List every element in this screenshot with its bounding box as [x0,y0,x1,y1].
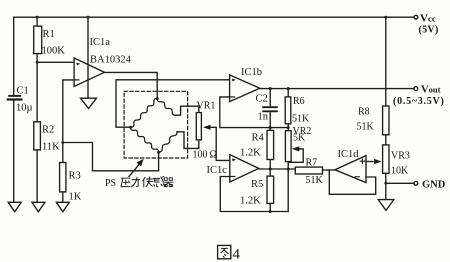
node R6 bottom junction [287,126,290,129]
resistor R8 [383,106,389,135]
terminal GND [414,181,418,185]
op-amp IC1d mirrored [335,156,366,183]
svg-text:11K: 11K [42,142,60,153]
bridge arm top-right [157,99,176,116]
terminal Vout [414,87,418,91]
wire bridge left vertex to IC1b plus input [116,80,230,127]
terminal Vcc [414,15,418,19]
svg-text:GND: GND [422,180,446,191]
wire VR3 bottom to ground [385,173,387,199]
ground under R2 [32,202,45,212]
wire IC1b minus feedback to node [220,97,288,128]
resistor R2 [34,122,41,150]
resistor R7 horizontal [295,167,322,174]
svg-text:C2: C2 [256,94,268,105]
svg-text:51K: 51K [292,114,310,125]
wire IC1b output to Vout [260,88,414,90]
svg-text:4: 4 [233,247,241,262]
wire R1 bottom lead to input node [36,54,38,63]
node R6 top [287,87,290,90]
wire IC1a power from rail [87,17,89,98]
node rail-R8 junction [384,16,387,19]
node rail-IC1a power junction [87,16,90,19]
wire bridge lower right arm to VR1 bottom [177,132,199,149]
wire IC1c minus feedback loop [220,177,288,212]
minus mark IC1b [231,96,235,98]
node R1-R2 junction [36,61,39,64]
svg-text:5K: 5K [293,133,306,144]
wire IC1a output [104,72,157,98]
wire IC1a plus input [37,61,74,63]
potentiometer VR2 [285,131,291,162]
resistor R6 [285,97,291,124]
capacitor C2 [263,107,277,111]
plus mark IC1d [360,159,364,163]
svg-text:1.2K: 1.2K [240,148,261,159]
ground under IC1a [81,98,97,108]
svg-text:C1: C1 [17,86,29,97]
wire R8 to VR3 [385,135,387,145]
plus mark IC1a [76,63,80,66]
node R3 top branch [61,141,64,144]
wire C1 bottom to ground [13,101,15,203]
wiper arrow VR2 [288,146,303,162]
svg-text:R6: R6 [293,96,305,107]
wire IC1a minus input to R3 [63,80,74,163]
svg-text:R5: R5 [251,179,263,190]
node bridge left vertex [129,126,132,129]
wire R2 top lead [36,62,38,122]
svg-text:1.2K: 1.2K [240,196,261,207]
svg-text:(5V): (5V) [419,25,439,36]
resistor R4 [267,130,274,159]
svg-text:51K: 51K [306,175,324,186]
arrow PS pointer [129,159,144,177]
wire R3 node to bridge bottom [63,143,159,171]
node R5 bottom junction [269,210,272,213]
dashed sensor box [124,91,188,158]
minus mark IC1c [231,176,235,178]
wire R5 top lead [269,169,271,176]
node R4-R5 junction [269,168,272,171]
bridge arm bottom-left [131,127,159,152]
svg-text:R3: R3 [69,171,81,182]
resistor R1 [34,26,42,53]
svg-text:IC1c: IC1c [207,165,228,176]
wire R8 top lead from rail [385,17,387,106]
svg-text:1K: 1K [69,192,82,203]
plus mark IC1b [232,79,236,82]
bridge arm bottom-right [159,132,177,153]
wire GND tap [386,182,414,184]
wire IC1d feedback loop [329,170,375,194]
label pressure sensor CJK [121,177,173,188]
svg-text:1n: 1n [258,112,269,123]
svg-text:IC1a: IC1a [90,37,111,48]
wire R7 right lead to IC1d [323,169,336,171]
svg-text:IC1d: IC1d [338,149,360,160]
svg-text:R8: R8 [358,107,370,118]
op-amp IC1b [230,75,260,102]
plus mark IC1c [232,159,236,162]
resistor R3 [60,163,66,192]
svg-text:10K: 10K [391,166,409,177]
wire C2 bottom lead [269,112,271,127]
wire junction to R7 [259,168,296,170]
node C2 top [269,87,272,90]
ground under C1 [8,202,21,212]
wire R2 bottom lead [36,150,38,202]
svg-text:100K: 100K [42,46,66,57]
svg-text:BA10324: BA10324 [90,55,132,66]
svg-text:R4: R4 [252,133,265,144]
node bridge bottom vertex [157,151,160,154]
potentiometer VR3 [383,145,389,173]
wire R4 bottom lead [269,160,271,170]
node bridge top vertex [156,97,159,100]
svg-text:10µ: 10µ [16,103,33,114]
svg-text:51K: 51K [357,122,375,133]
minus mark IC1a [75,79,79,81]
node rail-R1 junction [36,16,39,19]
svg-text:R7: R7 [306,158,318,169]
node GND tap junction [384,182,387,185]
minus mark IC1d [355,176,359,178]
wire R6 bottom lead [287,124,289,131]
wire Vcc top rail [14,16,415,18]
svg-text:VR3: VR3 [391,151,410,162]
capacitor C1 [8,96,22,100]
resistor R5 [267,176,274,203]
node C2-R4 junction [269,126,272,129]
ground under R3 [56,202,69,212]
svg-text:Vcc: Vcc [420,13,436,25]
caption figure 4 [218,245,231,258]
wire R5 bottom lead [269,203,271,211]
wiper arrow VR1 [203,125,230,161]
wire R6 top lead [287,89,289,97]
wire VR2 bottom lead down to feedback wire [287,162,289,212]
op-amp IC1c [230,155,259,182]
wire R4 top lead [269,128,271,131]
svg-text:Vout: Vout [421,85,441,96]
svg-text:IC1b: IC1b [241,67,262,78]
ground under VR3 [378,200,394,211]
svg-text:R1: R1 [43,29,55,40]
wire C2 top lead [269,89,271,107]
svg-text:PS: PS [105,178,116,189]
svg-text:VR1: VR1 [197,101,216,112]
node R7 left junction [287,168,290,171]
bridge arm top-left [131,98,158,127]
op-amp IC1a [74,58,104,87]
wiper arrow VR3 wire from IC1d plus input [366,159,382,164]
svg-text:R2: R2 [42,125,54,136]
wire bridge upper right arm to VR1 top [176,106,199,115]
wire R1 top lead [36,17,38,26]
wire R3 bottom lead [62,192,64,202]
potentiometer VR1 [196,113,201,140]
wire left vertical from rail to C1 [13,17,15,95]
svg-text:100 Ω: 100 Ω [193,150,217,161]
svg-text:(0.5~3.5V): (0.5~3.5V) [393,96,445,107]
